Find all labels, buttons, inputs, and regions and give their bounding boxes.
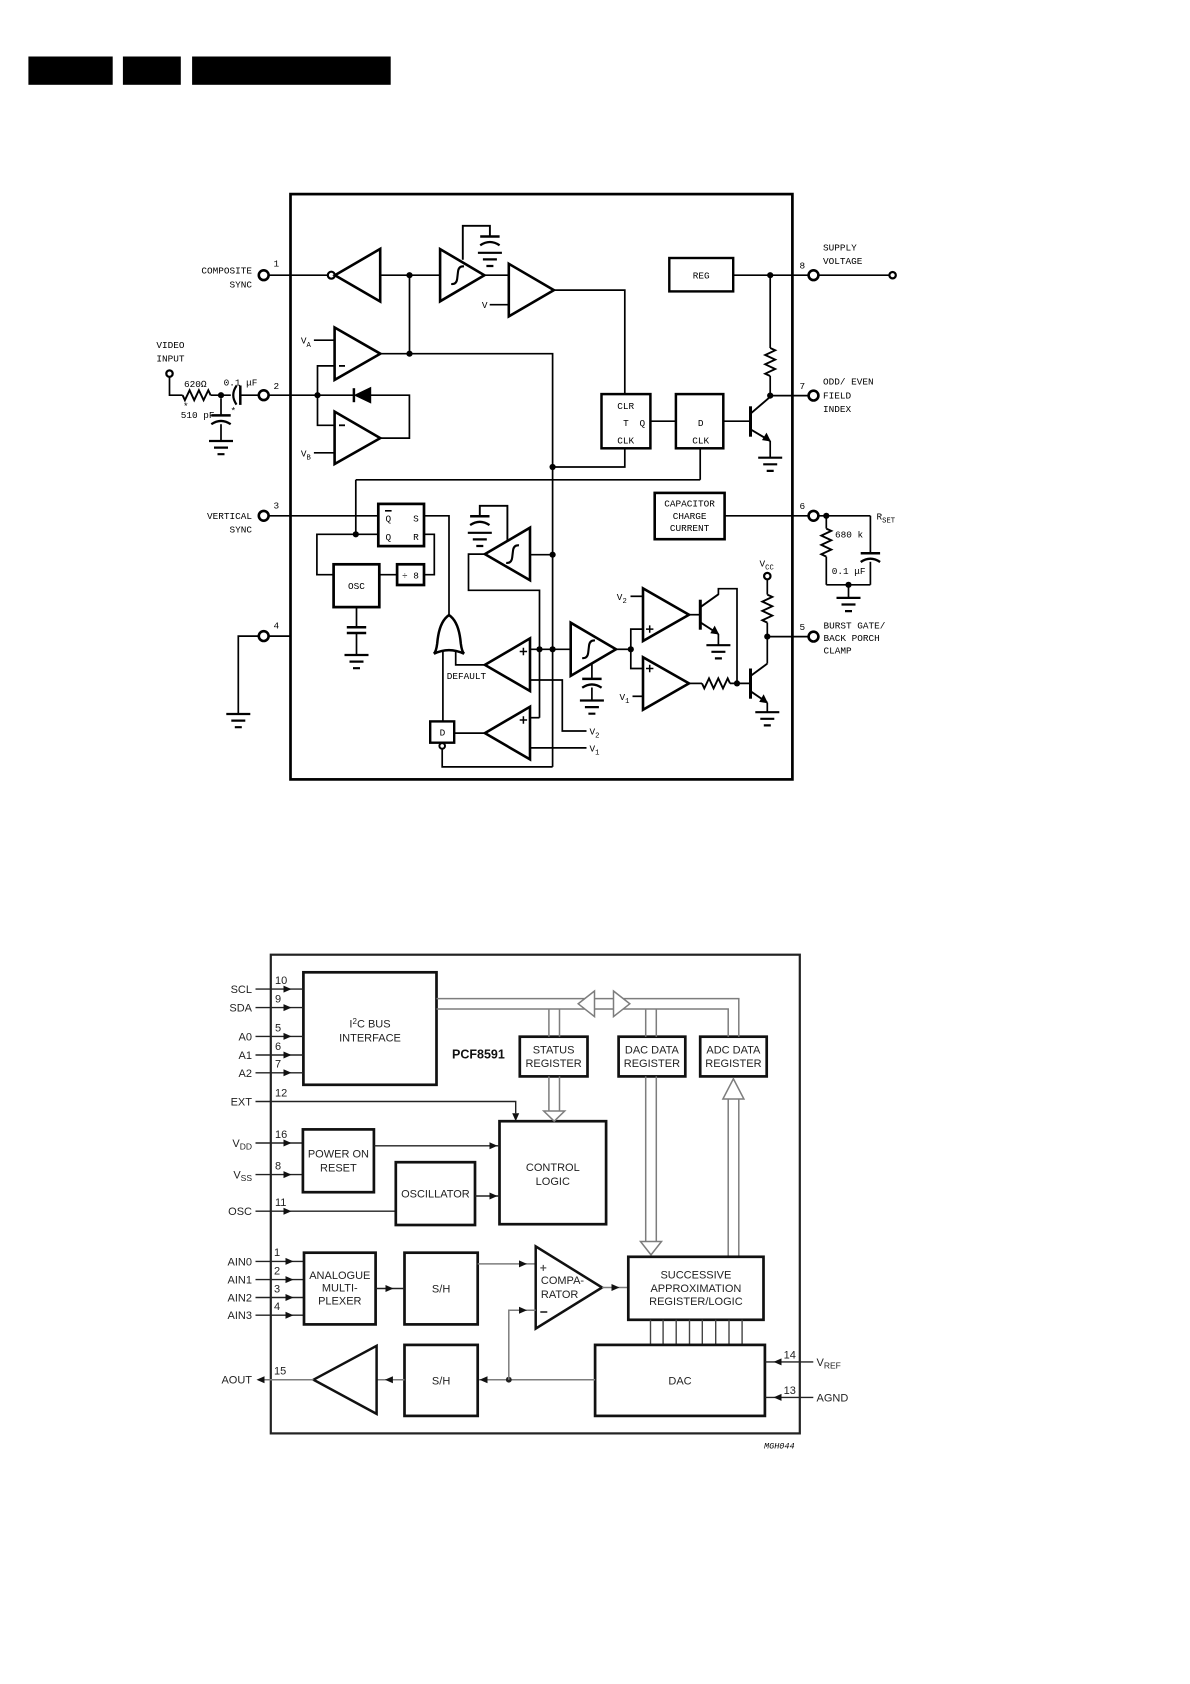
wire U7 output to D latch — [454, 732, 485, 734]
arrowhead comparator minus — [519, 1307, 527, 1314]
svg-text:CLR: CLR — [617, 401, 634, 412]
arrow mux to S/H — [376, 1288, 405, 1290]
bus hollow arrowhead right — [614, 991, 630, 1017]
wire VA output bus (right then down the chip) — [380, 354, 552, 767]
pin 2 terminal — [259, 390, 269, 400]
svg-text:RSET: RSET — [877, 512, 896, 526]
redaction bar 3 (page header) — [192, 57, 391, 85]
junction RSET node — [823, 513, 829, 519]
junction U9 out — [628, 646, 634, 652]
svg-text:4: 4 — [274, 621, 280, 632]
wire V2 label to U10 — [631, 595, 644, 597]
arrowhead into SAR — [612, 1284, 620, 1291]
wire D clock from bottom rail — [699, 448, 701, 480]
svg-text:680 k: 680 k — [835, 530, 864, 541]
wire C2 to pin 2 — [240, 394, 258, 396]
arrowhead into buffer — [385, 1376, 393, 1383]
wire D latch to main vertical — [442, 749, 552, 767]
video input terminal — [166, 370, 172, 376]
svg-text:VIDEO: VIDEO — [156, 340, 185, 351]
wire V1 label to U11 — [633, 695, 644, 697]
schmitt U8 (points left) — [485, 528, 530, 581]
svg-text:BACK PORCH: BACK PORCH — [824, 633, 880, 644]
wire S output down to OR gate — [424, 516, 449, 615]
svg-text:COMPOSITE: COMPOSITE — [201, 266, 252, 277]
flip-flop D/CLK box — [676, 394, 723, 448]
svg-text:CAPACITOR: CAPACITOR — [664, 499, 715, 510]
svg-text:0.1 μF: 0.1 μF — [832, 566, 866, 577]
transistor Q3 (burst gate output) — [749, 669, 752, 699]
RS latch box — [378, 504, 424, 546]
svg-text:OSC: OSC — [228, 1206, 252, 1218]
svg-text:VDD: VDD — [232, 1138, 252, 1152]
wire VA label to U4 — [314, 339, 335, 341]
svg-text:ADC DATA: ADC DATA — [706, 1044, 761, 1056]
wire OR right input to default comparator output — [456, 652, 485, 665]
divider box — [397, 564, 424, 585]
svg-text:S: S — [413, 513, 419, 524]
bus DAC data register down to SAR — [646, 1076, 657, 1241]
svg-text:CLK: CLK — [617, 435, 634, 446]
svg-text:COMPA-: COMPA- — [541, 1275, 585, 1287]
svg-text:SUPPLY: SUPPLY — [823, 242, 857, 253]
SUCCESSIVE APPROXIMATION REGISTER/LOGIC box — [628, 1257, 763, 1320]
internal data bus upper line — [437, 999, 739, 1037]
svg-text:SYNC: SYNC — [229, 279, 252, 290]
svg-text:16: 16 — [275, 1129, 287, 1141]
wire rail down to Q output of RS latch — [355, 480, 357, 535]
wire supply node down to R1 — [769, 275, 771, 348]
svg-text:1: 1 — [274, 259, 280, 270]
svg-text:FIELD: FIELD — [823, 390, 852, 401]
OSCILLATOR box — [396, 1162, 475, 1225]
wire OR left input to D latch — [442, 652, 444, 722]
svg-text:ODD/ EVEN: ODD/ EVEN — [823, 377, 874, 388]
svg-text:AIN3: AIN3 — [228, 1310, 252, 1322]
bottom clock rail — [356, 479, 700, 481]
OR gate G1 (points up) — [434, 615, 464, 654]
resistor R2 620 ohm — [183, 390, 211, 400]
svg-text:8: 8 — [800, 261, 806, 272]
capacitor C5 (internal storage) — [470, 516, 489, 525]
svg-text:VERTICAL: VERTICAL — [207, 511, 252, 522]
integral symbol U2 — [451, 266, 464, 284]
svg-text:1: 1 — [274, 1247, 280, 1259]
REG box — [669, 258, 733, 291]
wire S/H to comparator plus — [478, 1263, 536, 1265]
ground RSET — [837, 598, 861, 611]
svg-text:VCC: VCC — [760, 559, 775, 573]
ground OSC — [345, 655, 369, 668]
wire U7 top input — [530, 717, 540, 719]
wire node down to R5 — [825, 516, 827, 529]
capacitor C2 0.1uF (series, curved left plate) — [233, 386, 236, 405]
svg-text:S/H: S/H — [432, 1284, 450, 1296]
minus sign U5 — [339, 424, 345, 426]
SAR to DAC parallel lines — [651, 1320, 743, 1345]
comparator U11 (V1, points right) — [643, 657, 689, 710]
ground Q3 — [755, 712, 779, 725]
wire Q2 collector loop to Q3 base node — [718, 589, 737, 684]
hollow arrowhead into ADC data register — [723, 1079, 744, 1099]
wire splitter bracket to V2/V1 comparators — [631, 629, 643, 668]
wire C7 to bottom rail — [869, 562, 871, 585]
svg-text:REGISTER: REGISTER — [624, 1058, 680, 1070]
svg-text:14: 14 — [784, 1349, 796, 1361]
schmitt U9 (points right, burst gate) — [571, 623, 616, 676]
wire U10 output to Q2 base — [689, 614, 700, 616]
svg-text:DAC: DAC — [668, 1375, 691, 1387]
supply external terminal — [889, 272, 895, 278]
svg-text:I2C BUS: I2C BUS — [349, 1017, 390, 1031]
resistor R1 (internal pull-up) — [765, 348, 775, 376]
arrowhead into S/H lower — [480, 1376, 488, 1383]
svg-text:510 pF: 510 pF — [181, 410, 215, 421]
wire Q to OSC — [317, 534, 378, 574]
IC boundary box — [291, 194, 793, 779]
svg-text:2: 2 — [274, 1265, 280, 1277]
wire rail to ground — [848, 585, 850, 598]
wire S/H to output buffer — [377, 1379, 405, 1381]
wire U6 top input row to schmitt U8 — [530, 648, 571, 650]
wire V into U3 — [490, 304, 509, 306]
bus status register to control logic — [549, 1076, 560, 1111]
plus sign comparator — [540, 1265, 546, 1271]
svg-text:CONTROL: CONTROL — [526, 1162, 580, 1174]
svg-text:Q: Q — [385, 513, 391, 524]
svg-text:OSC: OSC — [348, 581, 365, 592]
capacitor C7 0.1uF — [861, 553, 880, 562]
svg-text:13: 13 — [784, 1385, 796, 1397]
svg-text:SCL: SCL — [231, 984, 252, 996]
svg-text:VA: VA — [301, 336, 312, 350]
svg-text:DEFAULT: DEFAULT — [447, 671, 487, 682]
svg-text:CLAMP: CLAMP — [824, 646, 853, 657]
S/H box upper — [405, 1253, 478, 1325]
arrowhead AOUT — [257, 1376, 265, 1383]
junction video node — [218, 392, 224, 398]
svg-text:CURRENT: CURRENT — [670, 523, 710, 534]
feedback wire to comparator minus — [509, 1310, 536, 1380]
svg-text:PCF8591: PCF8591 — [452, 1047, 505, 1061]
I2C BUS INTERFACE box — [303, 972, 436, 1085]
svg-text:÷ 8: ÷ 8 — [402, 570, 419, 581]
flip-flop CLR/T/CLK box — [602, 394, 651, 448]
comparator U3 — [509, 264, 554, 317]
svg-text:AIN2: AIN2 — [228, 1293, 252, 1305]
svg-text:INDEX: INDEX — [823, 404, 852, 415]
svg-text:*: * — [231, 406, 237, 417]
svg-text:RATOR: RATOR — [541, 1289, 579, 1301]
wire pin 2 into chip — [269, 394, 353, 396]
wire VCC to R4 — [766, 579, 768, 594]
ground Q1 — [758, 458, 782, 471]
wire D1 to VB output loop — [371, 395, 410, 438]
S/H box lower — [405, 1345, 478, 1416]
wire U8 right edge to main net — [530, 554, 553, 556]
junction node A — [406, 272, 412, 278]
wire DAC output to S/H lower — [478, 1379, 595, 1381]
wire pin 4 to ground — [238, 636, 258, 713]
wire D out to Q1 base — [723, 420, 750, 422]
transistor Q2 (clamp driver) — [699, 600, 702, 630]
comparator VA U4 — [335, 328, 381, 380]
wire Q to D flip-flop — [650, 420, 676, 422]
wire right branch down to C7 — [869, 516, 871, 553]
comparator U7 (points left, lower) — [485, 707, 530, 760]
wire div8 to R input — [424, 534, 434, 574]
svg-text:SYNC: SYNC — [229, 525, 252, 536]
svg-text:8: 8 — [275, 1160, 281, 1172]
wire R3 to Q3 base — [730, 682, 751, 684]
wire cap loop U8 — [480, 506, 508, 541]
junction Q row — [353, 531, 359, 537]
svg-text:MULTI-: MULTI- — [322, 1283, 358, 1295]
diode D1 (clamp) — [353, 388, 356, 402]
svg-text:REG: REG — [693, 270, 710, 281]
svg-text:INTERFACE: INTERFACE — [339, 1032, 401, 1044]
hollow arrowhead into control logic — [544, 1111, 565, 1121]
resistor R5 680k — [821, 529, 831, 557]
plus sign U7 — [520, 716, 527, 723]
comparator VB U5 — [335, 412, 381, 464]
svg-text:4: 4 — [274, 1301, 280, 1313]
svg-text:Q: Q — [385, 532, 391, 543]
wire pin 4 to chip edge — [269, 635, 291, 637]
wire comparator output to SAR — [602, 1287, 628, 1289]
svg-text:V2: V2 — [617, 592, 627, 606]
svg-text:A2: A2 — [239, 1068, 252, 1080]
junction Q3 base node — [734, 680, 740, 686]
bus hollow arrowhead left — [578, 991, 594, 1017]
junction pin2 node — [314, 392, 320, 398]
D latch box — [430, 721, 454, 742]
wire R4 to pin5 node and Q3 collector — [766, 623, 768, 664]
wire node A down to VA output line — [409, 275, 411, 354]
wire VB label to U5 — [314, 452, 335, 454]
svg-text:A1: A1 — [239, 1050, 252, 1062]
output buffer amp (points left) — [314, 1346, 377, 1414]
svg-text:BURST GATE/: BURST GATE/ — [824, 620, 886, 631]
svg-text:CLK: CLK — [692, 435, 709, 446]
svg-text:T: T — [623, 418, 629, 429]
pin 7 terminal — [809, 391, 819, 401]
svg-text:OSCILLATOR: OSCILLATOR — [401, 1189, 470, 1201]
svg-text:LOGIC: LOGIC — [536, 1176, 570, 1188]
junction U8 input — [550, 552, 556, 558]
arrow oscillator to control logic — [475, 1195, 500, 1197]
bus branch into DAC data register — [646, 1009, 657, 1037]
capacitor C1 (internal storage) — [480, 237, 499, 246]
wire cap loop U2 — [463, 226, 490, 260]
VCC terminal — [764, 573, 770, 579]
junction pin 5 node — [764, 634, 770, 640]
svg-text:EXT: EXT — [231, 1097, 253, 1109]
svg-text:3: 3 — [274, 501, 280, 512]
junction on vertical at CLK row — [550, 464, 556, 470]
comparator U10 (V2, points right) — [643, 588, 689, 641]
pin VREF — [765, 1361, 813, 1363]
svg-text:V2: V2 — [590, 727, 600, 741]
svg-text:R: R — [413, 532, 419, 543]
wire inverter input to node A — [380, 274, 440, 276]
svg-text:STATUS: STATUS — [533, 1044, 575, 1056]
svg-text:SUCCESSIVE: SUCCESSIVE — [660, 1270, 731, 1282]
wire OSC to timing cap — [356, 607, 358, 626]
pin 4 terminal — [259, 631, 269, 641]
plus sign U11 — [646, 665, 653, 672]
pin 3 terminal — [259, 511, 269, 521]
wire U11 output to R3 — [689, 682, 702, 684]
minus sign U4 — [339, 365, 345, 367]
wire input to R2 — [170, 377, 183, 395]
wire Q2 emitter to ground — [717, 634, 719, 645]
DAC box — [595, 1345, 765, 1416]
pin AGND — [765, 1396, 813, 1398]
wire R2 to C2 — [211, 394, 231, 396]
wire C4 to ground — [356, 633, 358, 655]
svg-text:MGH044: MGH044 — [764, 1442, 795, 1452]
svg-text:INPUT: INPUT — [156, 354, 185, 365]
arrowhead comparator plus — [519, 1260, 527, 1267]
svg-text:V: V — [482, 300, 488, 311]
STATUS REGISTER box — [520, 1037, 588, 1077]
svg-text:ANALOGUE: ANALOGUE — [309, 1270, 370, 1282]
wire REG to pin 8 — [733, 274, 808, 276]
junction feedback net — [536, 646, 542, 652]
schmitt amp U2 (sync stripper) — [440, 249, 484, 301]
svg-text:9: 9 — [275, 994, 281, 1006]
junction DAC output — [506, 1377, 512, 1383]
wire Q1 emitter to ground — [769, 441, 771, 458]
wire C6 to ground — [591, 688, 593, 701]
CAPACITOR CHARGE CURRENT box — [655, 493, 725, 539]
svg-text:DAC DATA: DAC DATA — [625, 1044, 680, 1056]
svg-text:5: 5 — [275, 1022, 281, 1034]
svg-text:11: 11 — [275, 1197, 286, 1209]
svg-text:APPROXIMATION: APPROXIMATION — [650, 1283, 741, 1295]
svg-text:V1: V1 — [620, 692, 630, 706]
svg-text:5: 5 — [800, 622, 806, 633]
integral symbol U8 — [506, 545, 519, 563]
wire R1 to pin7 node — [769, 376, 771, 396]
junction pin7 node — [767, 393, 773, 399]
svg-text:D: D — [698, 418, 704, 429]
svg-text:RESET: RESET — [320, 1162, 357, 1174]
OSC box — [334, 564, 380, 607]
capacitor C6 (burst gate timing) — [582, 679, 601, 688]
svg-text:A0: A0 — [239, 1031, 252, 1043]
ground under C1 — [478, 253, 502, 266]
wire U8 output loop down to feedback net — [469, 554, 540, 718]
pin 6 terminal — [809, 511, 819, 521]
arrow POR to control logic — [374, 1145, 500, 1147]
resistor R3 (base) — [702, 678, 730, 688]
svg-text:VOLTAGE: VOLTAGE — [823, 256, 863, 267]
svg-text:S/H: S/H — [432, 1375, 450, 1387]
svg-text:SDA: SDA — [229, 1003, 252, 1015]
wire buffer to AOUT — [265, 1379, 314, 1381]
wire U3 output to CLR box — [554, 290, 625, 394]
wire pin 3 to RS latch Qbar — [269, 515, 379, 517]
transistor Q1 (field index) — [749, 406, 752, 436]
comparator U6 DEFAULT (points left) — [485, 638, 530, 691]
hollow arrowhead into SAR — [641, 1242, 662, 1255]
svg-text:2: 2 — [274, 381, 280, 392]
svg-text:Q: Q — [639, 418, 645, 429]
POWER ON RESET box — [303, 1129, 374, 1192]
plus sign U6 — [520, 648, 527, 655]
ground Q2 — [706, 645, 730, 658]
svg-text:REGISTER: REGISTER — [525, 1058, 581, 1070]
svg-text:D: D — [440, 728, 446, 739]
svg-text:V1: V1 — [590, 743, 600, 757]
wire pin1 to inverter bubble — [269, 274, 328, 276]
junction rail — [845, 582, 851, 588]
wire video node down to C3 — [220, 398, 222, 415]
plus sign U10 — [646, 625, 653, 632]
ground pin 4 — [226, 714, 250, 727]
svg-text:7: 7 — [275, 1059, 281, 1071]
svg-text:AIN1: AIN1 — [228, 1275, 252, 1287]
wire pin7 node to pin 7 — [770, 395, 808, 397]
ADC DATA REGISTER box — [700, 1037, 767, 1077]
integral symbol U9 — [582, 640, 595, 658]
junction main net — [550, 646, 556, 652]
ground video filter — [209, 441, 233, 454]
comparator triangle — [536, 1246, 602, 1328]
pin 8 terminal — [809, 270, 819, 280]
ground under C5 — [468, 533, 492, 546]
capacitor C4 (oscillator) — [347, 627, 366, 633]
resistor R4 (pull-up) — [762, 595, 772, 623]
wire OSC to div8 — [379, 574, 397, 576]
svg-text:620Ω: 620Ω — [184, 379, 207, 390]
svg-text:3: 3 — [274, 1283, 280, 1295]
svg-text:6: 6 — [800, 501, 806, 512]
wire U9 cap stub — [591, 664, 593, 679]
capacitor C3 510pF — [211, 415, 230, 424]
junction VA-out / nodeA — [406, 351, 412, 357]
wire U9 output to splitter — [616, 648, 631, 650]
wire pin5 node to pin 5 — [767, 636, 808, 638]
svg-text:VB: VB — [301, 448, 312, 462]
wire R5 to bottom rail — [825, 557, 827, 585]
bus SAR up to ADC data register — [728, 1099, 739, 1257]
wire U4 minus input — [318, 366, 335, 425]
wire pin 6 to RSET network — [818, 515, 870, 517]
svg-text:0.1 μF: 0.1 μF — [224, 378, 258, 389]
svg-text:7: 7 — [800, 381, 806, 392]
wire U7 lower input to V1 ref — [530, 747, 587, 749]
wire pin8 to external terminal — [818, 274, 889, 276]
svg-text:REGISTER: REGISTER — [705, 1058, 761, 1070]
inverter U1 bubble — [328, 272, 335, 279]
svg-text:12: 12 — [275, 1087, 287, 1099]
svg-text:AGND: AGND — [817, 1393, 849, 1405]
wire C3 to ground — [220, 424, 222, 440]
ground C6 — [580, 701, 604, 714]
svg-text:15: 15 — [274, 1366, 286, 1378]
chip boundary frame — [271, 955, 800, 1434]
svg-text:6: 6 — [275, 1041, 281, 1053]
junction supply node — [767, 272, 773, 278]
wire U6 lower input to V2 ref — [530, 680, 587, 731]
svg-text:10: 10 — [275, 975, 287, 987]
pin 5 terminal — [809, 632, 819, 642]
wire U2 out to U3 — [484, 274, 508, 276]
ANALOGUE MULTIPLEXER box — [304, 1253, 376, 1325]
